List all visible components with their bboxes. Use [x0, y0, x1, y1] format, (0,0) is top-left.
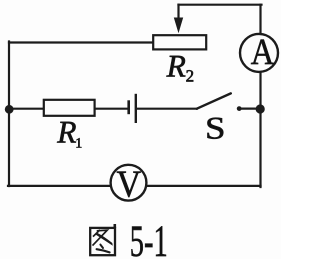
wire R1 to battery [95, 108, 128, 110]
wire left vertical [8, 42, 10, 187]
switch S arm [197, 93, 231, 108]
wire wiper vertical [177, 5, 179, 20]
rheostat R2 wiper arrowhead [174, 18, 183, 34]
svg-text:S: S [205, 111, 226, 146]
wire battery to switch pivot [137, 108, 197, 110]
svg-text:R: R [166, 49, 186, 84]
svg-text:R: R [56, 115, 76, 150]
svg-text:V: V [117, 164, 142, 206]
wire wiper top horizontal [179, 4, 262, 6]
ammeter A circle [240, 34, 278, 72]
voltmeter V circle [111, 165, 147, 201]
wire right vertical lower [259, 109, 261, 187]
node right junction dot [256, 104, 265, 113]
caption character 图 [90, 224, 115, 255]
resistor R1 body [44, 100, 95, 116]
battery positive long plate [135, 94, 137, 123]
svg-text:5-1: 5-1 [130, 216, 168, 259]
svg-text:2: 2 [186, 66, 195, 85]
rheostat R2 body [153, 35, 206, 49]
wire middle from node to R1 [8, 108, 44, 110]
switch right contact dot [237, 106, 242, 111]
wire ammeter top lead [259, 5, 261, 34]
wire bottom left segment [8, 185, 110, 187]
wire ammeter bottom lead [259, 73, 261, 109]
wire bottom right segment [147, 185, 260, 187]
wire top-left horizontal [9, 41, 153, 43]
node left junction dot [5, 105, 14, 114]
svg-text:A: A [251, 32, 275, 73]
svg-text:1: 1 [75, 136, 82, 151]
wire switch contact to junction [239, 107, 261, 109]
battery negative short plate [127, 100, 130, 114]
